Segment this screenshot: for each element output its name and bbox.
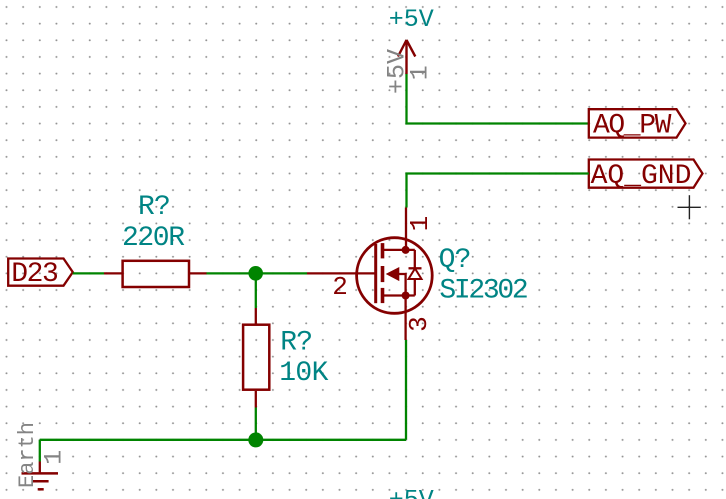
- drain pin 1: [405, 208, 407, 251]
- svg-text:AQ_PW: AQ_PW: [593, 110, 672, 141]
- transistor Q1 SI2302: [307, 208, 527, 341]
- svg-text:Earth: Earth: [15, 422, 40, 488]
- svg-text:R?: R?: [138, 192, 170, 223]
- cursor crosshair: [678, 195, 701, 219]
- junction A: [248, 266, 263, 281]
- gate bar: [374, 244, 377, 303]
- wire AQ_GND to Q1 drain: [407, 174, 589, 208]
- svg-text:R?: R?: [280, 328, 312, 359]
- svg-text:Q?: Q?: [439, 245, 471, 276]
- wire +5V to AQ_PW: [407, 74, 589, 124]
- gate pin 2: [307, 272, 376, 274]
- svg-text:SI2302: SI2302: [439, 275, 527, 306]
- bottom rail wire: [40, 439, 406, 441]
- svg-text:1: 1: [405, 65, 434, 80]
- svg-text:AQ_GND: AQ_GND: [591, 161, 692, 192]
- svg-text:3: 3: [404, 316, 434, 332]
- source connection: [383, 294, 415, 296]
- source pin 3: [404, 296, 406, 341]
- wire R2 to bottom rail: [255, 408, 257, 440]
- wire to earth: [39, 440, 41, 462]
- svg-text:+5V: +5V: [389, 5, 434, 34]
- wire D23 to R1: [73, 272, 104, 274]
- svg-text:2: 2: [332, 272, 348, 302]
- drain connection: [383, 249, 415, 251]
- resistor R2 10K: [243, 308, 329, 408]
- svg-text:+5V: +5V: [389, 486, 434, 499]
- global label AQ_GND: [589, 160, 703, 193]
- wire Q1 source to bottom rail: [405, 340, 407, 440]
- svg-text:220R: 220R: [122, 223, 185, 254]
- power symbol +5V (top): [383, 5, 435, 94]
- junction B: [248, 432, 263, 447]
- substrate arrow: [387, 268, 399, 281]
- svg-text:1: 1: [39, 450, 68, 465]
- body diode: [414, 250, 416, 268]
- svg-text:D23: D23: [11, 259, 58, 290]
- resistor R1 220R: [104, 192, 207, 287]
- earth ground symbol: [15, 422, 68, 489]
- global label AQ_PW: [589, 109, 686, 141]
- body circle: [357, 238, 433, 314]
- wire junction down to R2: [255, 273, 257, 308]
- wire R1 to junction to Q1 gate: [207, 272, 308, 274]
- channel segments: [381, 243, 385, 258]
- svg-text:10K: 10K: [279, 358, 328, 389]
- svg-text:1: 1: [405, 216, 435, 232]
- global label D23: [8, 259, 73, 291]
